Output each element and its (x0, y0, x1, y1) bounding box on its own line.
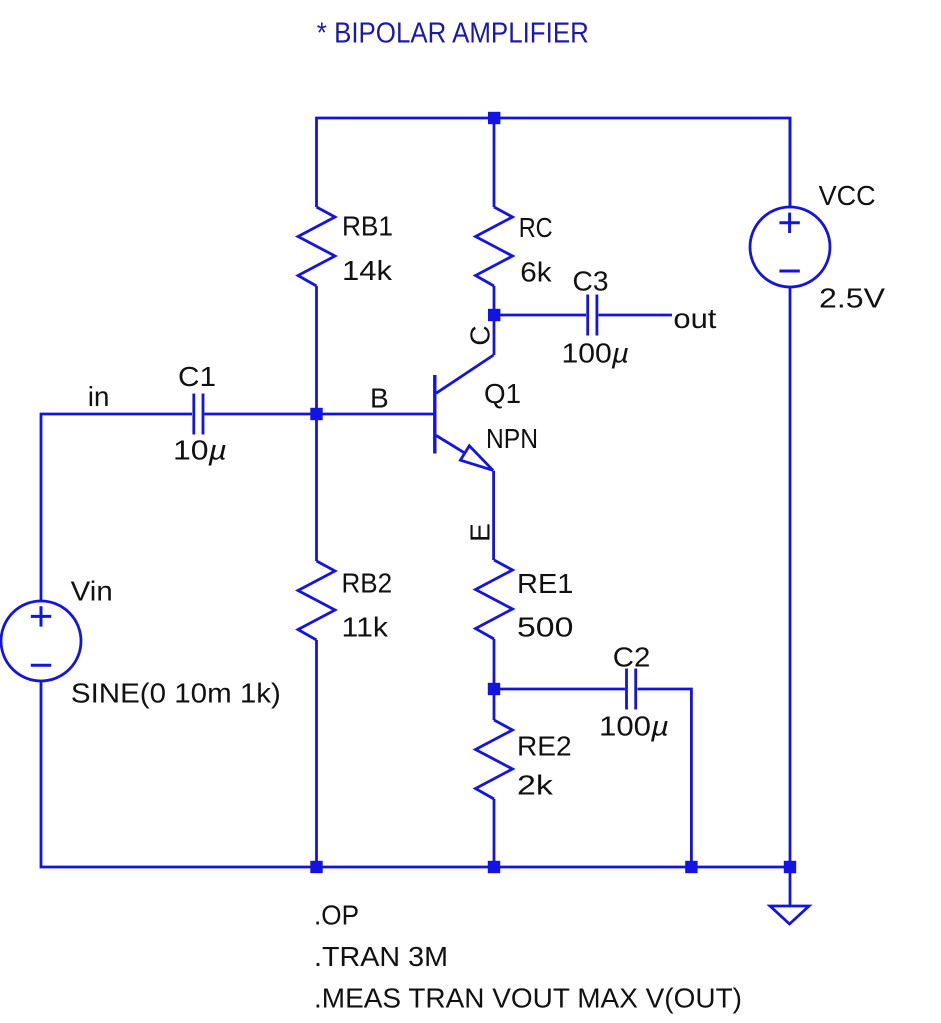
node rail RB2 (310, 861, 322, 873)
node C (488, 309, 500, 321)
svg-text:10µ: 10µ (173, 435, 227, 466)
svg-text:14k: 14k (342, 255, 393, 286)
wire RB1 bottom to RB2 top (through node B) (315, 286, 318, 561)
svg-text:E: E (465, 523, 496, 542)
resistor RE2 (476, 720, 513, 799)
resistor RB1 (298, 207, 335, 286)
resistor RE1 (476, 560, 513, 639)
wire emitter vertical to RE1 (492, 471, 495, 560)
svg-text:6k: 6k (520, 257, 552, 288)
wire in row left (41, 414, 192, 601)
svg-text:NPN: NPN (486, 423, 538, 454)
capacitor C3 (588, 295, 597, 336)
svg-text:RB2: RB2 (342, 568, 393, 599)
wire RC bottom to node C (493, 286, 496, 315)
svg-text:500: 500 (517, 612, 573, 643)
resistor RC (476, 207, 513, 286)
wire base lead (317, 413, 434, 416)
wire ground stub (789, 867, 792, 906)
wire C2 row left (494, 688, 625, 691)
svg-text:C3: C3 (573, 266, 609, 297)
ground (770, 906, 809, 924)
transistor Q1 (435, 355, 494, 470)
resistor RB2 (298, 561, 335, 640)
svg-text:RC: RC (519, 212, 553, 243)
svg-text:out: out (673, 303, 716, 334)
voltage source Vin (1, 601, 81, 681)
svg-text:2k: 2k (517, 770, 554, 801)
wire Vin bottom + bottom rail (41, 681, 790, 867)
svg-text:Vin: Vin (71, 576, 113, 607)
wire RC top lead (493, 118, 496, 207)
wire C2 right to bottom rail (638, 689, 692, 867)
svg-text:.OP: .OP (314, 900, 359, 931)
wire VCC top lead (789, 118, 792, 207)
svg-text:100µ: 100µ (599, 711, 669, 742)
wire top rail (317, 118, 791, 207)
node rail RE2 (488, 861, 500, 873)
svg-text:* BIPOLAR AMPLIFIER: * BIPOLAR AMPLIFIER (317, 17, 589, 49)
wire collector (493, 315, 496, 355)
node junction top rail (488, 112, 500, 124)
wire RE2 bottom lead (493, 799, 496, 867)
wire out row (494, 314, 586, 317)
node E junction (488, 683, 500, 695)
svg-text:RE1: RE1 (517, 568, 573, 599)
wire C3 to out (599, 314, 673, 317)
svg-text:2.5V: 2.5V (819, 283, 885, 314)
svg-text:11k: 11k (342, 612, 390, 643)
svg-text:C: C (465, 325, 496, 345)
svg-text:RB1: RB1 (342, 211, 393, 242)
capacitor C1 (194, 394, 203, 435)
wire VCC bottom to rail (789, 287, 792, 867)
node rail ground (784, 861, 796, 873)
svg-text:SINE(0 10m 1k): SINE(0 10m 1k) (71, 678, 281, 709)
svg-text:Q1: Q1 (484, 378, 521, 409)
wire RB2 bottom lead (315, 640, 318, 867)
node rail C2 (685, 861, 697, 873)
svg-text:C2: C2 (613, 642, 651, 673)
voltage source VCC (750, 207, 830, 287)
wire C1 to node B (205, 413, 317, 416)
svg-text:in: in (88, 381, 110, 412)
svg-text:.MEAS TRAN VOUT MAX V(OUT): .MEAS TRAN VOUT MAX V(OUT) (314, 983, 742, 1014)
svg-text:C1: C1 (178, 361, 216, 392)
svg-text:.TRAN 3M: .TRAN 3M (314, 941, 448, 972)
wire RE1 bottom lead (493, 639, 496, 720)
svg-text:100µ: 100µ (562, 338, 630, 369)
node B (310, 408, 322, 420)
svg-text:B: B (370, 383, 389, 414)
svg-text:VCC: VCC (819, 180, 876, 211)
svg-text:RE2: RE2 (517, 731, 572, 762)
capacitor C2 (627, 669, 636, 710)
